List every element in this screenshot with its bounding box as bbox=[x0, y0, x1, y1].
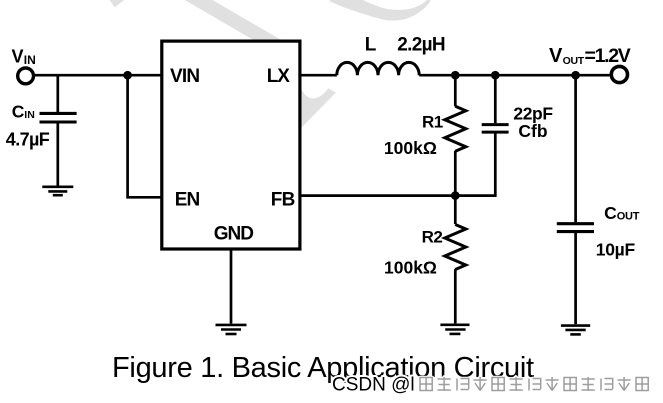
svg-text:4.7µF: 4.7µF bbox=[6, 130, 50, 150]
label VOUT=1.2V bbox=[549, 45, 631, 67]
node COUT junction bbox=[571, 71, 580, 80]
wire R2 bottom bbox=[454, 269, 457, 323]
wire COUT top bbox=[574, 75, 577, 222]
svg-text:2.2µH: 2.2µH bbox=[397, 35, 445, 56]
wire GND pin bbox=[230, 249, 233, 324]
svg-text:V: V bbox=[12, 46, 24, 66]
label CIN bbox=[12, 101, 35, 121]
terminal VIN bbox=[18, 68, 34, 84]
svg-text:OUT: OUT bbox=[617, 210, 640, 222]
wire R2 top bbox=[454, 196, 457, 225]
label VIN supply bbox=[12, 46, 36, 67]
ground R2 bbox=[440, 325, 469, 334]
wire input rail bbox=[33, 74, 163, 77]
svg-text:FB: FB bbox=[271, 189, 295, 210]
svg-text:R1: R1 bbox=[422, 112, 443, 131]
capacitor Cfb bbox=[482, 125, 509, 133]
svg-text:VIN: VIN bbox=[170, 66, 199, 87]
ground IC bbox=[216, 325, 247, 334]
wire output rail bbox=[419, 74, 609, 77]
capacitor CIN bbox=[40, 113, 77, 122]
svg-text:R2: R2 bbox=[422, 228, 443, 247]
svg-text:IN: IN bbox=[24, 109, 35, 121]
resistor R1 bbox=[445, 106, 466, 151]
wire FB rail bbox=[300, 194, 497, 197]
svg-text:L: L bbox=[365, 34, 377, 55]
svg-text:C: C bbox=[604, 203, 617, 223]
terminal VOUT bbox=[611, 66, 627, 82]
watermark text CSDN bbox=[332, 375, 648, 396]
node LX-R1 junction bbox=[451, 71, 460, 80]
wire LX out bbox=[300, 74, 337, 77]
svg-text:V: V bbox=[549, 45, 563, 67]
svg-text:Cfb: Cfb bbox=[518, 121, 547, 141]
svg-text:CSDN @l: CSDN @l bbox=[332, 375, 415, 396]
inductor L1 bbox=[337, 62, 419, 75]
wire CIN branch top bbox=[56, 75, 59, 112]
svg-text:10µF: 10µF bbox=[596, 240, 636, 260]
node FB junction bbox=[451, 191, 460, 200]
wire COUT bottom bbox=[574, 233, 577, 324]
node Cfb junction bbox=[491, 71, 500, 80]
resistor R2 bbox=[445, 225, 466, 270]
svg-text:OUT: OUT bbox=[563, 55, 585, 67]
IC U1 body bbox=[162, 41, 300, 249]
label COUT bbox=[604, 203, 640, 223]
svg-text:IN: IN bbox=[24, 53, 36, 67]
watermark gray strokes bbox=[110, 0, 431, 128]
svg-text:Figure 1. Basic Application Ci: Figure 1. Basic Application Circuit bbox=[112, 352, 534, 384]
capacitor COUT bbox=[557, 224, 594, 232]
wire Cfb top bbox=[494, 75, 497, 123]
svg-text:GND: GND bbox=[214, 223, 254, 244]
wire EN branch bbox=[128, 75, 163, 197]
svg-text:C: C bbox=[12, 101, 25, 121]
svg-text:=1.2V: =1.2V bbox=[585, 45, 631, 67]
node input junction bbox=[123, 71, 132, 80]
ground COUT bbox=[561, 326, 590, 335]
wire R1 bottom bbox=[454, 151, 457, 196]
svg-text:100kΩ: 100kΩ bbox=[384, 257, 437, 277]
svg-text:LX: LX bbox=[267, 66, 291, 87]
wire Cfb bottom bbox=[494, 134, 497, 196]
svg-text:100kΩ: 100kΩ bbox=[384, 138, 437, 158]
ground input bbox=[42, 187, 73, 195]
wire R1 top bbox=[454, 75, 457, 106]
svg-text:EN: EN bbox=[175, 189, 200, 210]
wire CIN bottom bbox=[56, 124, 59, 188]
